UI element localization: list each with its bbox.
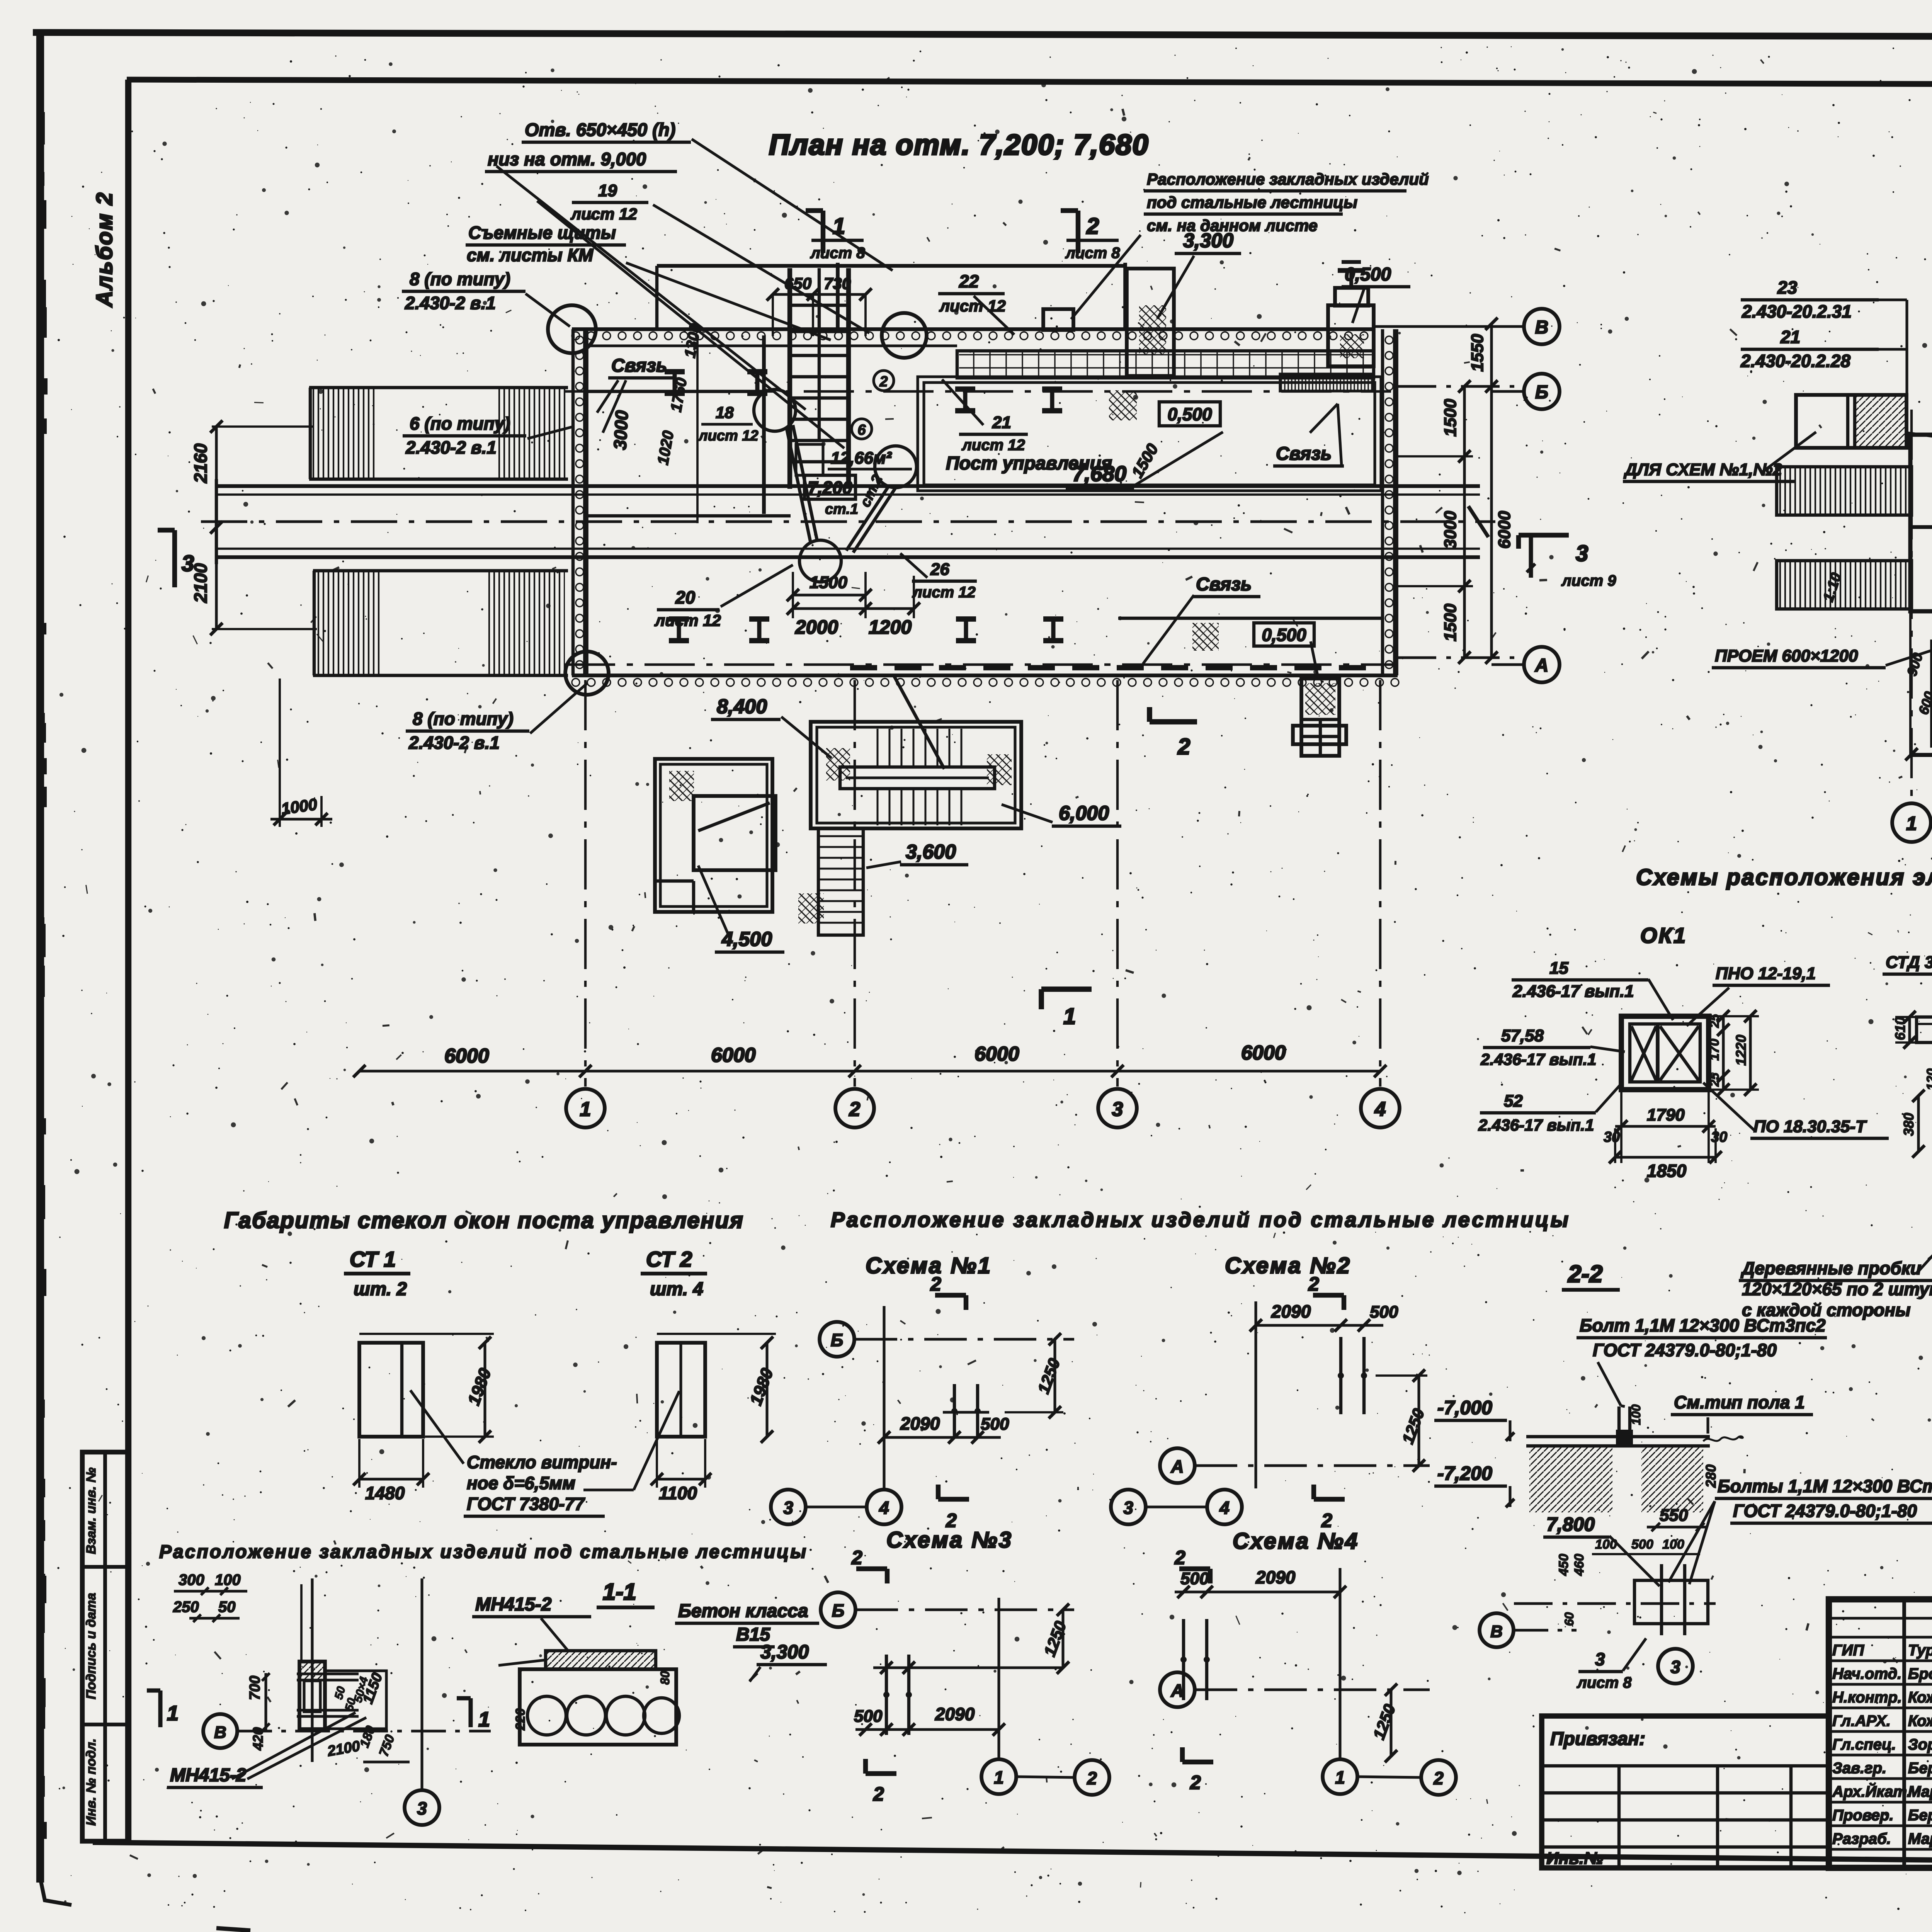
svg-text:Связь: Связь [611, 355, 667, 376]
stair hatch patch left [826, 748, 850, 781]
building left wall [571, 329, 575, 675]
leader svyaz to wall [1310, 404, 1338, 433]
svg-text:57,58: 57,58 [1501, 1026, 1544, 1045]
rail left end tick [215, 479, 218, 564]
svg-text:Н.контр.: Н.контр. [1832, 1689, 1902, 1706]
svg-text:Болт 1,1М 12×300 ВСт3пс2: Болт 1,1М 12×300 ВСт3пс2 [1580, 1315, 1826, 1335]
svg-text:Схема №4: Схема №4 [1233, 1529, 1359, 1554]
window mark circle st1 low [799, 540, 841, 582]
svg-text:3: 3 [417, 1798, 427, 1818]
svg-text:100: 100 [1629, 1404, 1643, 1425]
slab 1-1 hole 4 [644, 1698, 679, 1733]
svg-text:1: 1 [478, 1708, 490, 1731]
svg-text:1: 1 [580, 1098, 591, 1121]
mn detail right rect [325, 1671, 386, 1729]
left wing hatch lower b [488, 572, 565, 674]
svg-text:Кожевников: Кожевников [1908, 1713, 1932, 1730]
dim 1000 [279, 679, 281, 827]
svg-text:4: 4 [1374, 1098, 1386, 1121]
svg-text:170: 170 [1707, 1039, 1722, 1061]
svg-text:Марголина: Марголина [1908, 1830, 1932, 1847]
svg-text:Гл.АРХ.: Гл.АРХ. [1832, 1713, 1891, 1730]
svg-text:лист 12: лист 12 [570, 205, 637, 223]
axis line B [1398, 385, 1524, 388]
svg-text:6 (по типу): 6 (по типу) [410, 413, 510, 434]
svg-text:3: 3 [1595, 1649, 1605, 1669]
svg-text:низ на отм. 9,000: низ на отм. 9,000 [488, 149, 646, 169]
svg-text:6000: 6000 [444, 1045, 489, 1067]
rail line 2 [216, 493, 1480, 496]
svg-text:Нач.отд.: Нач.отд. [1832, 1665, 1901, 1682]
svg-text:1: 1 [167, 1702, 179, 1725]
shaft inner rect [796, 444, 823, 475]
column axis 1 line [584, 680, 587, 1087]
ST2 glass rect [657, 1343, 705, 1437]
svg-text:Привязан:: Привязан: [1550, 1729, 1645, 1749]
leader bundle line 3 [626, 263, 831, 340]
column circle 3 [1098, 1089, 1137, 1128]
left room inner rect [694, 796, 776, 870]
schema3 dim 1250 [1061, 1610, 1064, 1668]
gallery grid strip [957, 351, 1374, 378]
shaft rung 6 [790, 460, 849, 463]
panel joint dashed line bottom [850, 665, 1379, 670]
axis A dashdot through building [565, 663, 1395, 666]
roof door rect [1043, 309, 1073, 330]
svg-text:500: 500 [1631, 1537, 1653, 1552]
schema3 dim line bottom [855, 1728, 999, 1731]
schema1 vertical axis [883, 1306, 885, 1488]
building top wall [572, 327, 1374, 331]
svg-text:8,400: 8,400 [717, 696, 767, 718]
schema3 bolts [885, 1655, 888, 1735]
svg-text:6000: 6000 [711, 1044, 756, 1066]
section flag 1 low [1041, 986, 1092, 992]
OK1 dim 1220 [1749, 1016, 1752, 1090]
leader bolty 2 [1668, 1501, 1715, 1582]
leader raspolozhenie [1071, 235, 1141, 319]
hall double rect inner [924, 383, 1375, 485]
section mark 3 list 9 [1519, 533, 1569, 537]
svg-text:Связь: Связь [1276, 444, 1332, 464]
svg-text:30: 30 [1604, 1129, 1620, 1145]
hatch patch hall [1109, 390, 1137, 420]
svg-text:52: 52 [1504, 1092, 1523, 1111]
schema4 flag 2 top [1179, 1566, 1210, 1571]
column axis 2 line [854, 680, 856, 1087]
svg-text:2: 2 [879, 374, 888, 390]
svg-text:2: 2 [1087, 1768, 1097, 1788]
dim line 1500 window [793, 594, 866, 596]
platform grid [1301, 718, 1339, 721]
shaft middle vertical [818, 268, 821, 440]
svg-text:280: 280 [1703, 1464, 1719, 1488]
svg-text:500: 500 [854, 1707, 883, 1726]
mn detail rails a [297, 1672, 359, 1675]
OK1 dim below 1 [1615, 1125, 1716, 1128]
svg-text:2: 2 [1174, 1547, 1185, 1568]
svg-text:Связь: Связь [1196, 574, 1252, 595]
column circle 1 [566, 1089, 605, 1128]
svg-text:см. листы КМ: см. листы КМ [467, 245, 594, 265]
detail 7800 axis V circle [1480, 1613, 1514, 1647]
svg-text:ПО 18.30.35-Т: ПО 18.30.35-Т [1753, 1117, 1867, 1136]
left dim ticks [210, 420, 223, 433]
svg-text:7,680: 7,680 [1072, 461, 1126, 486]
svg-text:6,000: 6,000 [1059, 802, 1109, 825]
shaft rung 0 [790, 304, 849, 307]
ST1 dim 1980 [483, 1343, 486, 1437]
schema2 dim 1250 [1417, 1376, 1420, 1466]
svg-text:Схема №3: Схема №3 [886, 1527, 1013, 1553]
boxed level 0,500 upper [1159, 402, 1220, 426]
building corner circle bottom left [565, 651, 609, 695]
stair diagonal line [894, 676, 944, 769]
slab 1-1 hole 1 [527, 1696, 566, 1735]
roof ladder bar upper left [1777, 467, 1912, 515]
side stamp divider row 2 [82, 1723, 128, 1726]
svg-text:500: 500 [1180, 1569, 1209, 1588]
svg-text:Расположение закладных изделий: Расположение закладных изделий [1147, 170, 1429, 188]
svg-text:Зорин: Зорин [1908, 1736, 1932, 1753]
svg-text:ПНО 12-19,1: ПНО 12-19,1 [1716, 964, 1816, 983]
shaft rung 5 [790, 439, 849, 442]
slab 1-1 hole 2 [567, 1696, 605, 1735]
left dim chain line [215, 427, 218, 629]
svg-text:2: 2 [1308, 1273, 1319, 1295]
shaft rung 3 [790, 396, 849, 400]
right tower antenna [1349, 270, 1353, 288]
leader steklo a [410, 1390, 464, 1464]
inner frame left line [125, 80, 131, 1842]
svg-text:60: 60 [1562, 1612, 1576, 1626]
svg-text:Расположение закладных издел: Расположение закладных изделий под сталь… [159, 1542, 808, 1562]
svg-text:Зав.гр.: Зав.гр. [1832, 1760, 1886, 1777]
axis circle V plan [1524, 309, 1560, 344]
schema1 dim line bottom [884, 1436, 1001, 1439]
mn detail flag 1-1 [158, 1690, 163, 1727]
svg-text:Взам. инв. №: Взам. инв. № [84, 1468, 99, 1554]
building right wall [1381, 329, 1384, 675]
svg-text:2: 2 [1190, 1772, 1201, 1793]
schema4 axis line [1195, 1688, 1430, 1691]
title block row line 11 [1829, 1848, 1932, 1850]
svg-text:Стекло витрин-: Стекло витрин- [467, 1452, 617, 1472]
inner frame bottom line [93, 1842, 1932, 1867]
svg-text:1: 1 [1335, 1767, 1345, 1787]
svg-text:22: 22 [959, 271, 979, 291]
schema2 circle 3 [1111, 1490, 1146, 1524]
svg-text:Болты 1,1М 12×300 ВСт3пс2: Болты 1,1М 12×300 ВСт3пс2 [1718, 1476, 1932, 1496]
svg-text:15: 15 [1549, 959, 1568, 978]
schema3 axis B circle [821, 1592, 855, 1627]
svg-text:2090: 2090 [1255, 1567, 1296, 1587]
schema3 vertical axis [997, 1598, 1000, 1758]
svg-text:МН415-2: МН415-2 [170, 1765, 247, 1786]
leader 0500 lower [1311, 641, 1318, 679]
svg-text:Туринский: Туринский [1908, 1642, 1932, 1659]
OK1 frame inner [1630, 1024, 1700, 1082]
sheet outer top border [33, 32, 1932, 38]
OK1 dim below 2 [1615, 1156, 1716, 1158]
title block row line 3 [1829, 1659, 1932, 1662]
svg-text:120×120×65 по 2 штуки: 120×120×65 по 2 штуки [1742, 1279, 1932, 1299]
svg-text:3,300: 3,300 [760, 1641, 809, 1663]
OK1 diagonal a [1631, 1026, 1656, 1080]
detail 7800 rect [1634, 1580, 1708, 1624]
side stamp box [82, 1452, 128, 1841]
axis B dashdot through building [565, 390, 1391, 393]
building corner circle top left [548, 305, 596, 353]
axis line V [1374, 325, 1524, 328]
OK2 dim 380 [1917, 1096, 1920, 1151]
schema1 circle 4 [867, 1490, 901, 1524]
svg-text:Марголина: Марголина [1908, 1783, 1932, 1800]
stair tower hatch [1139, 305, 1166, 355]
title block outer rect [1829, 1599, 1932, 1868]
left room outer rect [655, 759, 772, 912]
slab 2-2 top lines [1526, 1435, 1710, 1438]
lower stair hatch [798, 893, 824, 923]
rail I-beam symbol 7 [956, 616, 976, 622]
leader bundle line 1 [692, 139, 893, 270]
svg-text:ное δ=6,5мм: ное δ=6,5мм [467, 1473, 575, 1493]
svg-text:под стальные лестницы: под стальные лестницы [1147, 193, 1357, 211]
schema2 axis line [1195, 1464, 1430, 1467]
title block row line 9 [1829, 1801, 1932, 1803]
upper outline line [657, 264, 1125, 268]
title block row line 5 [1829, 1706, 1932, 1709]
OK1 ext below [1620, 1092, 1622, 1163]
rail line 4 [216, 555, 1480, 559]
svg-text:2090: 2090 [935, 1704, 975, 1724]
svg-text:80: 80 [658, 1671, 672, 1685]
ST2 divider [679, 1343, 682, 1437]
schema2 axis A circle [1160, 1448, 1195, 1483]
svg-text:1-1: 1-1 [603, 1579, 636, 1605]
schema3 flag 2 bottom [866, 1771, 896, 1776]
roof dim 18000 [1912, 753, 1932, 755]
slab 1-1 top plate [546, 1651, 656, 1669]
svg-text:8 (по типу): 8 (по типу) [413, 709, 514, 729]
inner wall lower [1118, 617, 1381, 620]
schema2 flag 2 bottom [1314, 1497, 1345, 1502]
svg-text:2: 2 [1086, 214, 1099, 239]
svg-text:26: 26 [930, 560, 949, 579]
schema4 circle 1 [1323, 1759, 1357, 1794]
title block row line 6 [1829, 1730, 1932, 1733]
upper outline left drop [655, 266, 658, 329]
svg-text:1200: 1200 [869, 616, 912, 638]
svg-text:Бетон класса: Бетон класса [678, 1601, 808, 1621]
axis line A short [1492, 663, 1524, 666]
svg-text:шт. 4: шт. 4 [650, 1279, 703, 1299]
column axis 3 line [1116, 680, 1119, 1087]
left wing wall upper [309, 386, 568, 389]
mn flag 1 right [457, 1696, 471, 1701]
mn axis circle 3 [405, 1790, 439, 1825]
left room notch [655, 879, 694, 883]
schema1 flag 2 bottom [938, 1497, 969, 1502]
slab 1-1 hole 3 [606, 1696, 645, 1735]
svg-text:19: 19 [598, 181, 617, 200]
svg-text:лист 12: лист 12 [698, 428, 759, 444]
svg-text:500: 500 [1370, 1303, 1398, 1321]
svg-text:2.436-17 вып.1: 2.436-17 вып.1 [1512, 982, 1634, 1001]
svg-text:ОК1: ОК1 [1640, 923, 1687, 947]
left dim chain vertical [696, 335, 699, 523]
svg-text:300: 300 [179, 1571, 204, 1588]
schema4 axis A circle [1160, 1672, 1195, 1707]
axis line B short [1492, 390, 1524, 393]
svg-text:Б: Б [831, 1330, 844, 1350]
svg-text:6000: 6000 [975, 1043, 1019, 1065]
svg-text:шт. 2: шт. 2 [354, 1279, 407, 1299]
privyazan col 2 [1716, 1766, 1719, 1868]
stair block outer rect [811, 722, 1021, 828]
OK2 horizontal bar [1917, 1017, 1932, 1043]
svg-text:Бродский: Бродский [1908, 1665, 1932, 1682]
schema1 bolts [953, 1384, 956, 1438]
svg-text:18: 18 [716, 403, 734, 422]
glass diagonal line 2 [846, 486, 889, 551]
privyazan col 3 [1789, 1766, 1793, 1868]
gallery strip right band [1280, 374, 1374, 391]
room upper wall [587, 390, 764, 393]
leader bolt 1 [1598, 1362, 1621, 1406]
svg-text:Провер.: Провер. [1832, 1807, 1894, 1824]
boxed level 0,500 lower [1254, 623, 1314, 646]
svg-text:Схема №1: Схема №1 [866, 1253, 992, 1278]
svg-text:3: 3 [783, 1498, 793, 1518]
svg-text:Арх.Йкат.: Арх.Йкат. [1832, 1782, 1911, 1800]
svg-text:3: 3 [1670, 1657, 1680, 1677]
rail line 3 [216, 548, 1480, 550]
svg-text:А: А [1170, 1456, 1184, 1476]
svg-text:2160: 2160 [190, 443, 211, 483]
svg-text:2: 2 [1321, 1510, 1332, 1531]
svg-text:Подпись и дата: Подпись и дата [84, 1593, 99, 1699]
svg-text:610: 610 [1892, 1017, 1908, 1040]
schema4 bolts [1182, 1619, 1185, 1700]
svg-text:2: 2 [849, 1098, 861, 1121]
schema4 dim 1250 [1389, 1690, 1392, 1756]
right dim chain 2 [1490, 324, 1493, 658]
svg-text:120: 120 [1924, 1068, 1932, 1090]
svg-text:20: 20 [675, 587, 696, 607]
svg-text:550: 550 [1660, 1506, 1688, 1525]
stair treads upper [867, 729, 971, 766]
ladders box left [1796, 395, 1906, 448]
slab 2-2 bolt [1617, 1406, 1621, 1446]
svg-text:Разраб.: Разраб. [1832, 1830, 1891, 1847]
svg-text:Берлин: Берлин [1908, 1807, 1932, 1824]
svg-text:4: 4 [1219, 1498, 1230, 1518]
schema3 axis line [855, 1608, 1074, 1611]
svg-text:СТ 2: СТ 2 [646, 1247, 692, 1271]
side stamp divider column [103, 1452, 107, 1841]
slab 2-2 hatch a [1529, 1447, 1612, 1512]
svg-text:2000: 2000 [795, 616, 838, 638]
svg-text:2.430-2 в.1: 2.430-2 в.1 [408, 733, 500, 753]
svg-text:2.436-17 вып.1: 2.436-17 вып.1 [1480, 1050, 1596, 1068]
svg-text:1790: 1790 [1647, 1105, 1685, 1124]
leader steklo b [583, 1488, 634, 1491]
svg-text:3,300: 3,300 [1183, 230, 1233, 252]
svg-text:ст.1: ст.1 [825, 501, 858, 517]
svg-text:7,200: 7,200 [808, 478, 852, 498]
svg-text:6000: 6000 [1241, 1042, 1286, 1064]
schema1 bolt crossline [943, 1411, 989, 1413]
schema3 circle 1 [981, 1759, 1016, 1794]
schema4 circle 2 [1421, 1760, 1456, 1795]
upper outline vertical [1123, 263, 1127, 329]
svg-text:МН415-2: МН415-2 [475, 1594, 552, 1615]
svg-text:3,600: 3,600 [906, 841, 956, 863]
section flag 2 top [1150, 719, 1197, 724]
ST2 dim 1100 [657, 1478, 705, 1480]
OK1 diagonal b [1660, 1026, 1699, 1080]
svg-text:лист 12: лист 12 [939, 297, 1006, 315]
title block row line 7 [1829, 1753, 1932, 1756]
shaft rung 2 [790, 375, 849, 378]
left wing hatch lower a [315, 572, 380, 674]
svg-text:6000: 6000 [1495, 511, 1514, 549]
svg-text:2090: 2090 [1271, 1301, 1311, 1321]
privyazan row 3 [1542, 1818, 1829, 1821]
column circle 2 [835, 1089, 874, 1128]
ST1 glass rect [359, 1343, 423, 1437]
left room diagonal [698, 803, 770, 831]
glass diagonal line 1 [786, 427, 811, 543]
svg-text:ГОСТ 24379.0-80;1-80: ГОСТ 24379.0-80;1-80 [1593, 1340, 1777, 1360]
schema4 vertical axis [1338, 1568, 1341, 1758]
axis circle B plan [1524, 374, 1560, 409]
leader mn low [232, 1713, 355, 1779]
roof lower protrusion outline [1910, 611, 1932, 756]
svg-text:2: 2 [930, 1273, 941, 1295]
privyazan row 1 [1542, 1764, 1829, 1767]
svg-text:12,66м²: 12,66м² [831, 449, 892, 468]
window mark circle st2 top [754, 389, 796, 431]
svg-text:Гл.спец.: Гл.спец. [1832, 1736, 1896, 1753]
left room inner wall [660, 764, 767, 906]
axis circle A plan [1524, 647, 1560, 682]
svg-text:Схема №2: Схема №2 [1225, 1253, 1351, 1278]
schema3 flag 2 top [856, 1566, 887, 1571]
svg-text:СТ 1: СТ 1 [350, 1247, 396, 1271]
svg-text:1: 1 [833, 214, 845, 239]
schema3 upper dim line [873, 1666, 1063, 1669]
bottom edge mark [216, 1928, 250, 1930]
axis line A [1398, 656, 1524, 659]
privyazan box [1542, 1716, 1829, 1868]
rail I-beam symbol 3 [955, 386, 975, 392]
svg-text:-7,200: -7,200 [1437, 1463, 1492, 1484]
dim line 2000 1200 [793, 607, 914, 610]
svg-text:0,500: 0,500 [1262, 625, 1306, 645]
svg-text:В: В [214, 1723, 226, 1742]
hatch patch lower band [1192, 623, 1219, 651]
mn detail plate [299, 1662, 325, 1729]
leader bundle line 4 [497, 166, 806, 410]
hall double rect outer [918, 377, 1381, 491]
leader probki [1918, 1163, 1932, 1271]
svg-text:8 (по типу): 8 (по типу) [410, 269, 510, 289]
schema1 flag 2 top [935, 1293, 966, 1298]
svg-text:лист 9: лист 9 [1561, 572, 1616, 589]
shaft rung 0b [790, 330, 849, 333]
